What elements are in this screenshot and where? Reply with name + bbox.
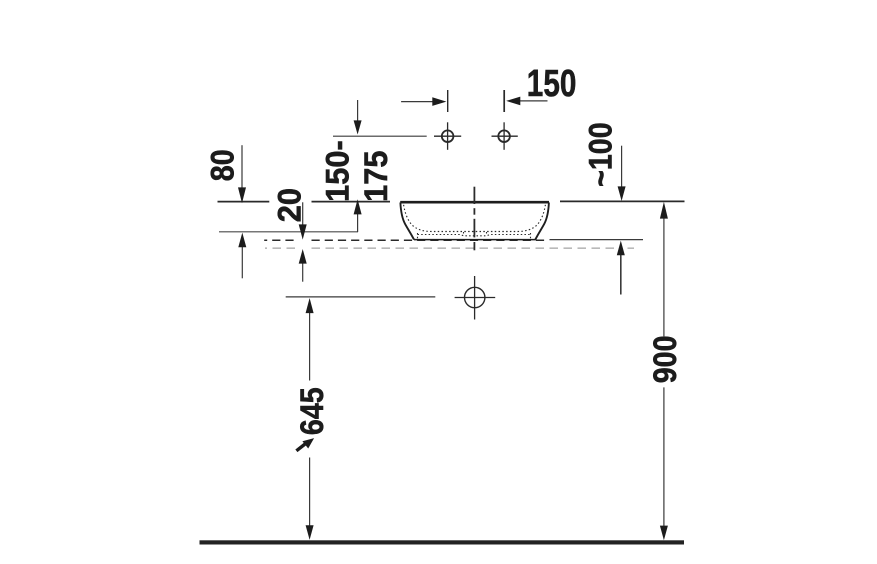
dimension 150: extension ticks xyxy=(447,90,449,112)
dark dashed hidden edge line xyxy=(264,239,548,241)
basin rim top line xyxy=(400,201,549,204)
svg-text:900: 900 xyxy=(647,335,683,383)
counter top line A right segment xyxy=(560,200,685,202)
svg-text:80: 80 xyxy=(205,149,241,181)
basin left wall xyxy=(400,203,414,240)
dimension 900: stem + arrows xyxy=(663,218,665,336)
counter top line A left segment 2 xyxy=(312,201,391,203)
faucet hole right xyxy=(492,122,518,150)
floor line xyxy=(200,540,685,544)
basin inner dotted contour xyxy=(404,205,546,232)
line B (lower reference line) xyxy=(219,231,358,233)
faucet height reference line xyxy=(333,135,427,137)
drain height reference line xyxy=(286,296,436,298)
dimension 20: up arrow xyxy=(302,263,304,282)
grey dashed console line xyxy=(265,247,634,249)
dimension 20: down arrow xyxy=(302,202,304,225)
dimension 645: stem + arrows xyxy=(309,313,311,381)
svg-text:150-: 150- xyxy=(319,140,356,202)
svg-text:175: 175 xyxy=(357,151,394,202)
dimension 150-175: top arrow (down) xyxy=(357,100,359,121)
basin bottom line xyxy=(414,239,536,241)
solid edge right of basin xyxy=(550,239,644,241)
basin right wall xyxy=(535,203,549,240)
dimension 150: line left + right arrow xyxy=(401,100,547,103)
dimension 150: arrowheads xyxy=(432,97,446,106)
faucet hole left xyxy=(434,122,461,150)
dimension ~100: down arrow xyxy=(621,146,623,187)
up arrow below right edge line xyxy=(620,255,622,295)
svg-text:150: 150 xyxy=(527,62,577,104)
basin centerline xyxy=(473,187,475,251)
counter top line A left segment 1 xyxy=(218,201,270,203)
dimension 80: down arrow xyxy=(241,145,243,188)
dimension 150-175: bottom arrow (up) xyxy=(357,214,359,233)
basin drain dotted outline xyxy=(418,232,531,238)
up arrow below line B xyxy=(241,246,243,278)
svg-text:645: 645 xyxy=(294,387,330,435)
svg-text:~100: ~100 xyxy=(583,122,619,187)
drain circle xyxy=(455,276,496,320)
dimension 645: arrow glyph xyxy=(296,443,306,451)
